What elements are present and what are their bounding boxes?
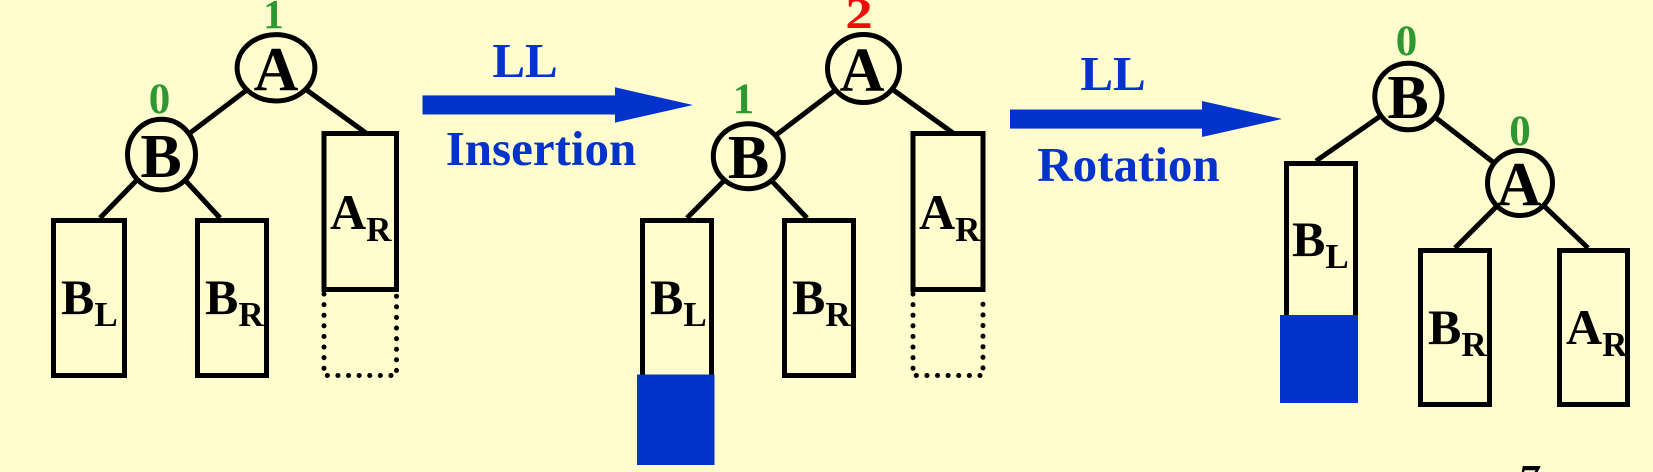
svg-text:Insertion: Insertion	[446, 121, 637, 176]
dotted extension below AR (tree1)	[324, 294, 397, 376]
subtree box AR (tree1)	[324, 134, 397, 290]
wire A-AR (tree2)	[864, 69, 954, 134]
inserted node block (blue, tree2)	[637, 375, 715, 466]
wire A-B (tree2)	[748, 69, 863, 157]
svg-text:LL: LL	[1080, 46, 1145, 101]
wire A-AR (tree1)	[276, 68, 366, 133]
subtree box BR (tree2)	[785, 221, 854, 376]
node A circle (tree2)	[828, 35, 900, 103]
svg-text:0: 0	[1396, 18, 1418, 65]
svg-text:A: A	[840, 37, 885, 105]
svg-text:0: 0	[149, 76, 171, 123]
subtree box BL (tree1)	[54, 221, 125, 376]
svg-text:7: 7	[1518, 458, 1541, 472]
inserted node block (blue, tree3)	[1280, 315, 1358, 403]
wire B-A (tree3)	[1408, 97, 1520, 184]
svg-text:1: 1	[263, 0, 284, 37]
wire B-BR (tree2)	[748, 156, 807, 218]
node A circle (tree3)	[1488, 151, 1553, 216]
subtree box BL (tree3)	[1287, 164, 1356, 317]
arrow LL insertion head	[615, 87, 693, 122]
svg-text:2: 2	[845, 0, 873, 38]
node B circle (tree1)	[128, 119, 196, 190]
node B circle (tree3)	[1375, 63, 1442, 130]
svg-text:A: A	[1497, 151, 1542, 219]
svg-text:0: 0	[1509, 108, 1531, 155]
svg-text:B: B	[1387, 64, 1428, 132]
svg-text:A: A	[254, 36, 299, 104]
wire A-AR (tree3)	[1520, 183, 1588, 248]
wire B-BR (tree1)	[162, 155, 221, 218]
wire B-BL (tree2)	[687, 156, 748, 218]
arrow LL rotation shaft	[1010, 110, 1204, 129]
wire A-BR (tree3)	[1455, 183, 1520, 248]
subtree box BL (tree2)	[643, 221, 712, 378]
wire B-BL (tree1)	[100, 155, 162, 218]
wire A-B (tree1)	[162, 68, 277, 155]
subtree box BR (tree1)	[198, 221, 267, 376]
svg-text:Rotation: Rotation	[1037, 137, 1219, 192]
arrow LL insertion shaft	[423, 95, 617, 114]
subtree box AR (tree3)	[1560, 251, 1628, 405]
svg-text:1: 1	[733, 76, 755, 123]
dotted extension below AR (tree2)	[913, 294, 983, 376]
subtree box BR (tree3)	[1421, 251, 1490, 405]
subtree box AR (tree2)	[913, 134, 983, 290]
svg-text:LL: LL	[492, 33, 557, 88]
arrow LL rotation head	[1202, 101, 1282, 137]
wire B-BL (tree3)	[1316, 97, 1408, 162]
svg-text:B: B	[728, 124, 769, 192]
node B circle (tree2)	[713, 124, 783, 189]
svg-text:B: B	[140, 123, 181, 191]
node A circle (tree1)	[237, 35, 315, 101]
